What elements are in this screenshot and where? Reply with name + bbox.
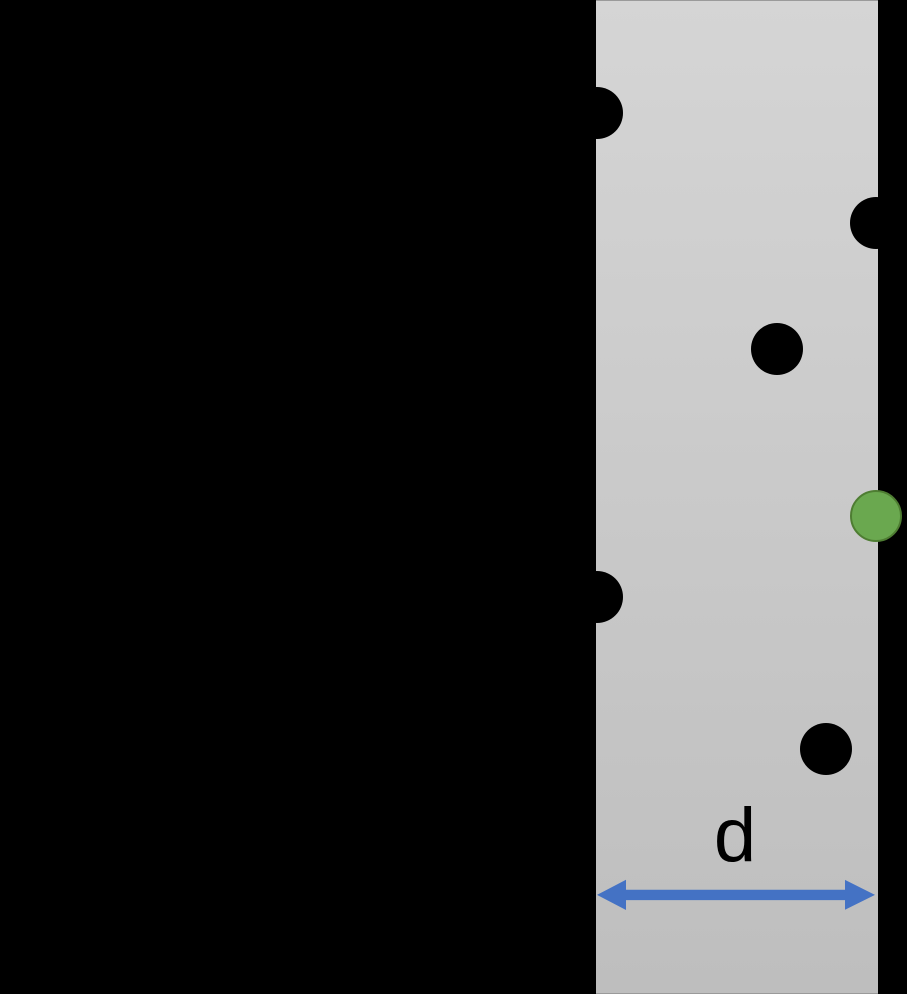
particle dot 5 (lower right) [800, 723, 852, 775]
gray slab (width d) [596, 0, 878, 994]
particle dot 2 (right edge, upper) [850, 197, 902, 249]
double-headed arrow for width d [590, 870, 890, 920]
particle dot 3 (middle) [751, 323, 803, 375]
particle dot 4 (left edge, lower) [571, 571, 623, 623]
green particle (right edge) [850, 490, 902, 542]
particle dot 1 (left edge, upper) [571, 87, 623, 139]
label d [690, 798, 780, 874]
